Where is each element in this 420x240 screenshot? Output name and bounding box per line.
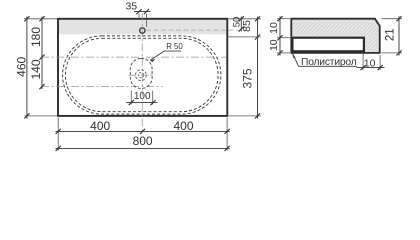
svg-text:400: 400 [90,119,110,133]
R 50 leader and label [150,42,183,62]
svg-text:140: 140 [29,59,43,79]
drain hole circles (dashed) [136,70,147,81]
bottom extension lines [58,118,227,151]
svg-text:10: 10 [364,58,376,70]
dimension 100 (drain width) [126,91,158,106]
svg-text:180: 180 [29,27,43,47]
dimension 460 (left outer) [14,16,29,118]
basin inner rim (dashed) [65,38,218,111]
dimension 400 / 400 (bottom) [56,119,230,134]
dimension 85 / 375 (right outer) [241,16,261,118]
vertical centerline [141,14,143,135]
svg-text:10: 10 [268,22,280,34]
faucet hole centerline (horizontal, dashed to right dim) [146,29,246,31]
horizontal centerline 1 (y=180) [41,56,226,58]
detail right extension lines [382,19,403,53]
basin outer rim (dashed) [63,36,221,114]
countertop outline [58,19,227,116]
svg-text:21: 21 [385,28,397,41]
dimension 10 (detail bottom) [357,52,385,70]
countertop back band (hatched) [59,20,227,35]
section body (hatched) with chamfer [291,19,379,53]
svg-text:35: 35 [125,1,137,13]
svg-text:R 50: R 50 [166,42,183,51]
svg-text:85: 85 [241,20,253,32]
right extension lines [229,19,262,116]
svg-text:100: 100 [134,91,151,102]
dimension 21 (detail right) [385,16,402,55]
svg-text:800: 800 [133,134,153,148]
Полистирол label with leader [292,53,357,68]
detail left extension lines [277,19,290,53]
dimension 800 (bottom) [56,134,230,151]
extension lines left (top and bottom) [24,19,57,116]
dimension 35 (top) [125,1,150,27]
horizontal centerline 2 (y=180+140) [41,86,163,88]
dimension 180 / 140 (left inner) [29,16,45,89]
svg-text:400: 400 [173,119,193,133]
faucet hole [140,28,145,33]
dimension 50 (right inner) [232,16,244,31]
svg-text:460: 460 [14,56,28,76]
svg-text:375: 375 [241,68,255,88]
drain oval R50 (dashed) [130,59,152,89]
polystyrene core (white) [292,38,364,52]
dimension 10 / 10 (detail left) [268,16,282,55]
svg-text:10: 10 [268,39,280,51]
drain horizontal center mark [129,74,155,76]
